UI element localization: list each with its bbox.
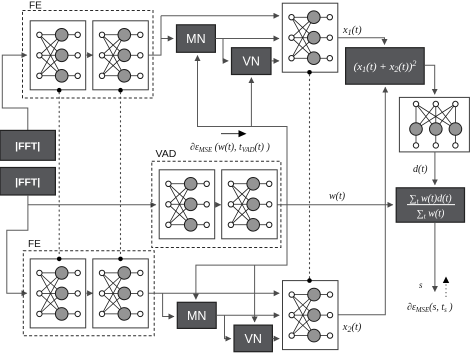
wire top rail to NN T input 1 (161, 15, 279, 17)
neural network B (bottom right) (283, 281, 339, 350)
svg-text:VN: VN (245, 332, 262, 346)
box weighted average fraction (396, 188, 464, 222)
svg-text:VAD: VAD (156, 148, 177, 160)
box MN top (177, 25, 216, 53)
dashed up arrow gradient s (445, 283, 447, 298)
wire fraction output down (434, 222, 436, 291)
neural network B2 (bottom FE right) (93, 259, 149, 328)
wire VN bottom output to NN B input 3 (272, 338, 279, 340)
wire A1 to A2 (86, 54, 92, 56)
neural network VAD2 (222, 170, 278, 239)
wire gradient branch up to VN (250, 78, 252, 127)
wire VAD1 to VAD2 (215, 204, 221, 206)
box VN top (232, 48, 272, 75)
neural network VAD1 (159, 170, 215, 239)
wire w(t) segment 2 to fraction box (278, 204, 393, 206)
box FFT1 (0, 130, 55, 160)
box VN bottom (234, 325, 272, 352)
neural network B1 (bottom FE left) (30, 259, 85, 328)
wire FFT2 down to bottom FE input (7, 195, 28, 293)
neural network A1 (top FE left) (30, 21, 85, 90)
svg-text:FE: FE (29, 1, 42, 12)
wire B1 to B2 (86, 292, 92, 294)
svg-text:MN: MN (187, 309, 206, 323)
wire w(t) segment 1 to VAD (28, 204, 156, 206)
svg-text:|FFT|: |FFT| (15, 141, 40, 153)
svg-text:MN: MN (186, 32, 205, 46)
dashed box FE bottom (23, 251, 154, 336)
wire MN bottom output branch to VN bottom (225, 315, 231, 338)
wire into MN (161, 38, 173, 40)
wire B2 output to NN B input 1 (148, 292, 279, 294)
wire FFT1 to FE input (2, 55, 28, 131)
svg-text:x1(t): x1(t) (342, 25, 362, 37)
box FFT2 (0, 168, 55, 196)
svg-text:s: s (419, 280, 423, 290)
annotation arrow gradient direction (221, 133, 240, 135)
wire FE output riser (148, 16, 161, 55)
neural network R (right, horizontal) (399, 97, 469, 151)
wire VN output to NN T input 3 (271, 60, 279, 62)
neural network T (top right) (282, 3, 338, 72)
wire x1 output to squared box (338, 38, 384, 45)
svg-text:VN: VN (243, 55, 260, 69)
wire gradient branch down to VN bottom (254, 265, 256, 322)
svg-text:|FFT|: |FFT| (15, 177, 40, 189)
wire MN bottom output to NN B input 2 (216, 314, 279, 316)
svg-text:FE: FE (28, 239, 41, 250)
wire x2 output up to squared box (338, 87, 385, 315)
junction dot NN B (307, 278, 312, 283)
wire MN output branch down to VN (223, 39, 228, 61)
junction dot A1 (57, 88, 62, 93)
junction dot NN T (307, 70, 312, 75)
wire gradient from w(t) up to MN (198, 56, 288, 205)
junction dot B1 (57, 257, 62, 262)
wire MN output to NN T input 2 (215, 38, 279, 40)
neural network A2 (top FE right) (93, 21, 149, 90)
junction dot B2 (118, 257, 123, 262)
svg-text:w(t): w(t) (329, 191, 346, 202)
svg-text:∂εMSE (w(t), tVAD(t) ): ∂εMSE (w(t), tVAD(t) ) (190, 142, 270, 154)
box MN bottom (177, 302, 216, 328)
svg-text:∑t w(t)d(t): ∑t w(t)d(t) (409, 194, 452, 206)
box squared sum (346, 48, 425, 84)
dashed box FE top (23, 11, 154, 99)
wire d(t) (434, 152, 436, 185)
wire squared box to NN R (424, 65, 435, 94)
dotted weight-share line A2-B2 (120, 93, 122, 257)
wire branch down into MN bottom (163, 293, 174, 316)
svg-text:d(t): d(t) (413, 164, 428, 175)
dotted weight-share line A1-B1 (58, 93, 60, 257)
wire gradient from w(t) down to MN bottom (196, 205, 287, 299)
svg-text:∂εMSE(s, ts ): ∂εMSE(s, ts ) (407, 302, 453, 314)
svg-text:∑t w(t): ∑t w(t) (417, 209, 445, 221)
svg-text:x2(t): x2(t) (342, 322, 362, 334)
junction dot A2 (118, 88, 123, 93)
dotted weight-share line T-B (309, 75, 311, 279)
dashed box VAD (152, 161, 281, 247)
